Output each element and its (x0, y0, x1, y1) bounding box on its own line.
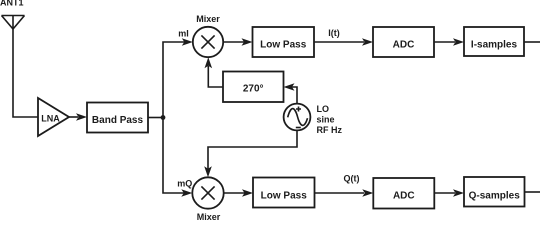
node junction (161, 115, 166, 120)
wire LNA to Band Pass (69, 113, 87, 121)
svg-text:LNA: LNA (41, 114, 60, 124)
wire Low Pass to ADC (Q) (315, 189, 374, 197)
svg-text:I-samples: I-samples (471, 40, 518, 51)
svg-text:ADC: ADC (393, 40, 415, 51)
label LO sine RF Hz (317, 104, 343, 135)
svg-text:Mixer: Mixer (197, 212, 221, 222)
block Q-samples (464, 177, 525, 207)
block ADC (Q) (373, 178, 434, 209)
oscillator LO (284, 104, 311, 131)
svg-text:Low Pass: Low Pass (260, 40, 307, 51)
block I-samples (464, 27, 524, 56)
amplifier LNA (38, 98, 69, 136)
wire 270 to I-mixer (205, 57, 224, 87)
svg-text:Q(t): Q(t) (344, 174, 360, 184)
wire Q-samples output (525, 191, 540, 193)
block Low Pass (I) (253, 27, 315, 57)
wire I-mixer to Low Pass (223, 38, 252, 46)
svg-text:sine: sine (317, 114, 335, 124)
wire ADC to Q-samples (434, 189, 464, 197)
wire Band Pass to node (148, 117, 163, 119)
wire LO to Q-mixer (204, 130, 297, 177)
wire antenna to LNA (13, 28, 38, 117)
svg-text:RF Hz: RF Hz (317, 125, 343, 135)
wire node to Q-mixer (163, 118, 192, 197)
svg-text:270°: 270° (243, 83, 264, 94)
svg-text:mQ: mQ (177, 179, 192, 189)
block ADC (I) (373, 27, 434, 57)
svg-text:Q-samples: Q-samples (469, 190, 521, 201)
wire Q-mixer to Low Pass (224, 189, 253, 197)
svg-text:Band Pass: Band Pass (92, 115, 144, 126)
mixer U2 (Q) (192, 177, 223, 208)
svg-text:ADC: ADC (393, 190, 415, 201)
block Low Pass (Q) (253, 178, 315, 208)
antenna ANT1 (2, 16, 25, 30)
svg-text:mI: mI (178, 29, 189, 39)
svg-text:LO: LO (317, 104, 330, 114)
mixer U1 (I) (193, 27, 223, 57)
svg-text:Low Pass: Low Pass (261, 190, 308, 201)
block 270 degree phase shift (223, 72, 284, 103)
wire I-samples output (524, 41, 540, 43)
wire LO to 270 (284, 83, 298, 103)
wire node to I-mixer (163, 38, 193, 117)
wire Low Pass to ADC (I) (314, 38, 373, 46)
svg-text:Mixer: Mixer (196, 14, 220, 24)
wire ADC to I-samples (434, 38, 464, 46)
block Band Pass (87, 103, 148, 133)
svg-text:I(t): I(t) (328, 28, 340, 38)
svg-text:ANT1: ANT1 (0, 0, 24, 8)
